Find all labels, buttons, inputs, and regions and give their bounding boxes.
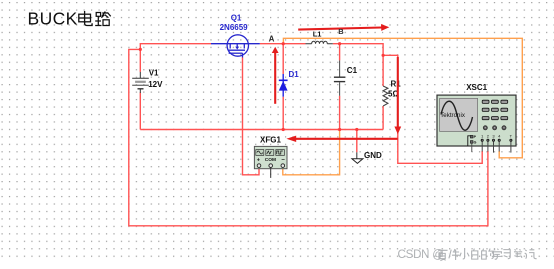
svg-text:COM: COM bbox=[265, 157, 276, 163]
svg-text:12V: 12V bbox=[148, 80, 163, 89]
svg-text:A: A bbox=[269, 35, 275, 44]
svg-text:CSDN @: CSDN @ bbox=[398, 249, 444, 261]
svg-text:C1: C1 bbox=[347, 66, 358, 75]
svg-text:G: G bbox=[474, 140, 477, 144]
svg-text:L1: L1 bbox=[313, 29, 322, 38]
svg-text:D1: D1 bbox=[289, 70, 300, 79]
svg-text:+: + bbox=[257, 158, 260, 164]
svg-text:R1: R1 bbox=[391, 80, 402, 89]
svg-text:Tektronix: Tektronix bbox=[440, 112, 466, 119]
svg-text:−: − bbox=[281, 157, 285, 163]
svg-text:B: B bbox=[338, 27, 344, 36]
svg-text:Q1: Q1 bbox=[231, 13, 242, 22]
svg-text:GND: GND bbox=[364, 151, 382, 160]
svg-text:BUCK: BUCK bbox=[28, 9, 78, 29]
svg-text:V1: V1 bbox=[149, 68, 159, 77]
svg-text:XSC1: XSC1 bbox=[466, 83, 487, 92]
svg-text:XFG1: XFG1 bbox=[260, 136, 281, 145]
svg-text:2N6659: 2N6659 bbox=[220, 23, 249, 32]
